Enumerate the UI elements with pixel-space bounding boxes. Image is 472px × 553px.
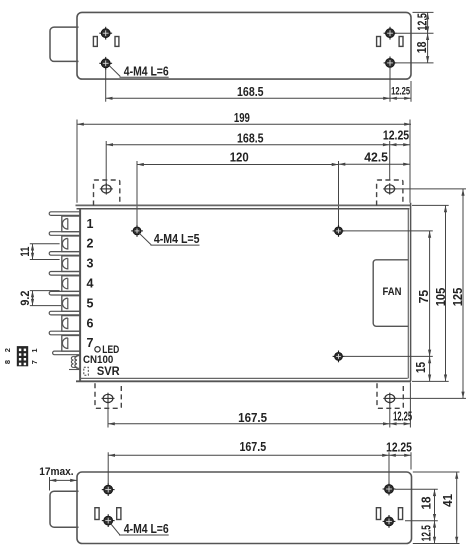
svg-text:4: 4	[87, 277, 94, 291]
svg-text:5: 5	[87, 296, 94, 310]
svg-text:167.5: 167.5	[239, 440, 266, 454]
svg-text:12.25: 12.25	[383, 128, 409, 142]
svg-text:41: 41	[441, 494, 455, 507]
svg-text:125: 125	[451, 288, 465, 307]
svg-text:12.25: 12.25	[393, 410, 412, 424]
svg-text:9.2: 9.2	[18, 290, 32, 305]
svg-text:168.5: 168.5	[237, 85, 264, 99]
svg-text:168.5: 168.5	[237, 131, 264, 145]
svg-text:12.5: 12.5	[419, 525, 433, 541]
svg-text:199: 199	[234, 111, 250, 125]
svg-text:167.5: 167.5	[238, 411, 267, 425]
svg-text:1: 1	[30, 348, 39, 352]
svg-text:7: 7	[30, 360, 39, 364]
svg-text:105: 105	[434, 288, 448, 307]
svg-text:2: 2	[87, 237, 94, 251]
svg-text:12.25: 12.25	[386, 440, 412, 454]
svg-text:12.25: 12.25	[391, 85, 410, 97]
svg-text:4-M4 L=5: 4-M4 L=5	[154, 232, 200, 246]
svg-text:7: 7	[87, 336, 94, 350]
svg-text:17max.: 17max.	[39, 466, 73, 478]
svg-text:3: 3	[87, 257, 94, 271]
svg-text:75: 75	[417, 290, 431, 304]
svg-text:6: 6	[87, 316, 94, 330]
svg-text:8: 8	[3, 360, 12, 364]
svg-text:FAN: FAN	[383, 286, 402, 298]
svg-text:2: 2	[3, 348, 12, 352]
svg-text:4-M4 L=6: 4-M4 L=6	[124, 522, 169, 536]
svg-text:15: 15	[414, 362, 428, 373]
svg-text:18: 18	[419, 497, 433, 510]
svg-text:1: 1	[87, 217, 94, 231]
svg-text:SVR: SVR	[97, 364, 120, 378]
svg-text:120: 120	[230, 151, 249, 165]
svg-text:12.5: 12.5	[416, 13, 430, 30]
svg-text:4-M4 L=6: 4-M4 L=6	[124, 64, 169, 78]
svg-text:11: 11	[18, 246, 32, 256]
svg-text:42.5: 42.5	[364, 151, 388, 165]
svg-text:18: 18	[415, 42, 429, 54]
